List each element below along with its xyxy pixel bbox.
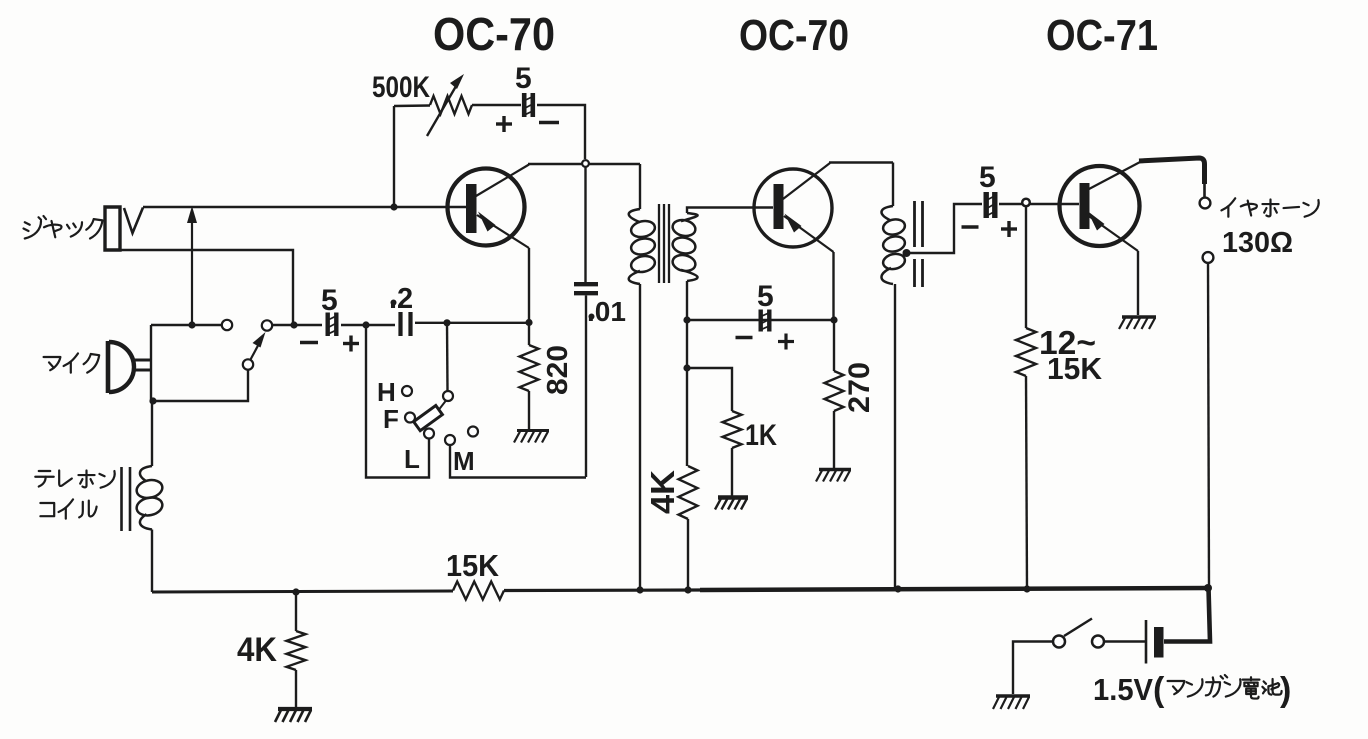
transformer T2 primary winding [881, 206, 906, 284]
polarity minus (feedback cap) [539, 121, 559, 124]
contact spare [468, 427, 478, 437]
label L [404, 444, 420, 474]
wire cap to collector corner [537, 105, 585, 159]
input select arrow [187, 206, 197, 325]
power switch contact left [1053, 636, 1065, 648]
label 1K [745, 419, 777, 452]
battery 1.5V [1146, 620, 1164, 664]
label 12~ [1039, 324, 1096, 361]
svg-text:15K: 15K [1047, 351, 1103, 386]
contact M [445, 435, 455, 445]
label coil (katakana) [40, 499, 96, 518]
node arrow junction [188, 321, 195, 328]
label 820 (rotated) [542, 345, 574, 395]
earphone terminal 2 [1203, 252, 1214, 263]
svg-text:5: 5 [321, 284, 338, 317]
transistor label OC-70 (first stage) [433, 8, 555, 60]
wire mic-line to switch contact [151, 324, 222, 326]
wire 270 to ground [833, 411, 835, 468]
wire mic vertical [150, 325, 152, 402]
resistor 1K [723, 411, 742, 448]
svg-text:OC-70: OC-70 [433, 8, 555, 60]
transformer T1 primary down [639, 284, 641, 590]
wire bottom rail middle [504, 588, 700, 592]
wire rail corner to battery [1164, 588, 1210, 642]
wire .2 to 820 node [415, 322, 529, 324]
polarity plus (feedback cap) [496, 116, 512, 132]
svg-text:1.5V: 1.5V [1093, 672, 1153, 707]
transistor Q1 collector [476, 164, 582, 196]
wire contact b to node [273, 324, 323, 326]
node bottom rail at 4K [292, 588, 299, 595]
label 15K (bias) [1047, 351, 1103, 386]
transistor Q1 emitter [477, 212, 529, 249]
wire 4K mid to rail [687, 519, 689, 590]
wire jack to T1 base [143, 206, 466, 208]
tone switch wiper blade [414, 406, 443, 431]
transistor Q1 OC-70 circle [448, 169, 525, 246]
node secondary bottom [683, 316, 690, 323]
label 4K [237, 631, 277, 669]
wire wiper down to mic bottom [153, 370, 248, 401]
mic select wiper arrow [251, 332, 266, 360]
label 1.5V battery [1093, 671, 1291, 709]
transformer T2 tap wire [907, 204, 983, 253]
node bottom rail at 12-15K [1023, 585, 1030, 592]
svg-text:(: ( [1153, 671, 1165, 709]
svg-text:4K: 4K [237, 631, 277, 669]
transformer T1 secondary down [686, 281, 688, 320]
transistor label OC-70 (second stage) [739, 11, 849, 60]
wire cap5 to cap.2 [341, 324, 395, 326]
switch wiper contact [243, 359, 253, 369]
capacitor 5 electrolytic (feedback) [523, 93, 535, 117]
polarity minus (stage3) [962, 225, 979, 228]
wire 4K to ground [295, 670, 297, 708]
polarity plus (stage2) [778, 334, 794, 350]
transformer T2 core upper [915, 201, 923, 247]
wire node down to .01 [584, 167, 586, 282]
capacitor 5 electrolytic (mic coupling) [326, 313, 338, 337]
node 1K branch [683, 364, 690, 371]
ground below Q3 emitter [1119, 317, 1156, 329]
node after mic cap [362, 321, 369, 328]
wire terminal2 down [1208, 263, 1209, 588]
svg-text:.01: .01 [587, 296, 626, 327]
svg-text:500K: 500K [372, 71, 430, 104]
power switch arm [1064, 619, 1092, 637]
switch contact a [222, 320, 232, 330]
label 500K [372, 71, 430, 104]
tone wiper link [439, 401, 446, 410]
wire emitter2 down [832, 252, 834, 320]
contact L [424, 429, 434, 439]
wire Q3 collector thick [1139, 158, 1205, 198]
node 500K-to-base junction [390, 203, 397, 210]
label mic (katakana) [44, 353, 100, 372]
node emitter/820 [525, 319, 532, 326]
contact F [405, 413, 415, 423]
earphone terminal 1 [1200, 198, 1211, 209]
label .2 [389, 283, 413, 315]
wire 1K to ground [731, 448, 733, 496]
svg-text:15K: 15K [446, 548, 500, 583]
transistor Q1 base bar [466, 184, 477, 233]
svg-text:5: 5 [515, 62, 532, 95]
wire node to transformer1 [589, 163, 640, 165]
capacitor .2 [401, 312, 411, 336]
capacitor .01 [574, 284, 598, 293]
transformer T2 tap dot [903, 249, 911, 257]
transformer T2 primary top [892, 163, 894, 207]
transformer T1 primary wire [639, 164, 641, 209]
power switch contact right [1092, 636, 1104, 648]
label 15K [446, 548, 500, 583]
svg-text:820: 820 [542, 345, 574, 395]
label H [377, 377, 396, 407]
svg-text:L: L [404, 444, 420, 474]
svg-text:5: 5 [757, 280, 774, 313]
wire .01 down to tone box [585, 296, 587, 478]
wire switch to ground [1013, 642, 1053, 695]
polarity minus (mic cap) [300, 341, 318, 344]
svg-text:1K: 1K [745, 419, 777, 452]
svg-text:.2: .2 [389, 283, 413, 315]
polarity plus (stage3) [1001, 221, 1017, 237]
svg-text:130Ω: 130Ω [1222, 227, 1293, 259]
wire pot to cap5 top [472, 104, 521, 106]
svg-text:): ) [1280, 671, 1291, 709]
label 130 ohm [1222, 227, 1293, 259]
tone box left [366, 325, 429, 478]
label M [453, 446, 475, 476]
node 12-15K junction (small circle) [1022, 199, 1030, 207]
wire junction down [1025, 207, 1027, 329]
jack symbol [105, 207, 143, 250]
transistor Q2 collector [783, 163, 893, 200]
transistor Q2 base bar [774, 184, 784, 229]
label F [383, 404, 399, 434]
wire 270 top [833, 320, 835, 371]
svg-text:F: F [383, 404, 399, 434]
polarity minus (stage2) [736, 336, 753, 339]
tone switch pole contact [443, 391, 453, 401]
svg-text:OC-71: OC-71 [1046, 11, 1158, 60]
mic stub wires [132, 360, 152, 370]
node mic bottom [149, 397, 156, 404]
svg-text:H: H [377, 377, 396, 407]
ground below 1K [715, 498, 748, 510]
wire bottom rail left [152, 591, 453, 592]
microphone symbol [108, 341, 134, 393]
transistor Q3 base bar [1080, 183, 1090, 229]
wire node to 820 [528, 323, 530, 346]
telephone coil core bars [122, 467, 131, 531]
contact H [402, 386, 412, 396]
wire cap to Q3 base [999, 203, 1079, 205]
node collector junction (small circle) [582, 160, 589, 167]
wire 12-15K to rail [1026, 376, 1027, 589]
transformer T2 primary down [894, 284, 896, 589]
label 5 (mic coupling cap) [321, 284, 338, 317]
transformer T1 core [659, 204, 669, 283]
switch contact b [262, 320, 272, 330]
ground below 4K [275, 709, 312, 722]
wire top to pot [394, 104, 430, 107]
svg-text:270: 270 [843, 362, 876, 413]
tone box right [450, 445, 586, 478]
label telephone (katakana) [35, 470, 114, 487]
wire Q3 emitter down [1137, 251, 1139, 315]
wire 1K branch [687, 368, 732, 411]
transformer T1 secondary top wire [687, 208, 773, 214]
node bottom rail at transformer1 [636, 586, 643, 593]
capacitor 5 electrolytic (stage2) [759, 310, 771, 332]
label 5 (feedback cap) [515, 62, 532, 95]
label 270 rotated [843, 362, 876, 413]
transistor Q3 OC-71 circle [1060, 166, 1140, 246]
wire tone branch down [446, 323, 449, 391]
resistor 12-15K [1016, 328, 1036, 376]
node bottom rail at 4K mid [684, 586, 691, 593]
wire Q1 emitter down [528, 248, 530, 323]
transformer T1 primary winding [629, 209, 657, 284]
svg-text:5: 5 [979, 161, 996, 194]
resistor 820 [520, 345, 539, 391]
label 5 (stage3 cap) [979, 161, 996, 194]
transformer T2 core lower [915, 259, 923, 287]
svg-text:4K: 4K [644, 470, 681, 514]
wire node to 4K [295, 592, 297, 631]
resistor 4K (emitter bias) [287, 631, 306, 670]
resistor 270 [825, 371, 844, 411]
wire bottom rail right (thick) [700, 588, 1209, 590]
node tone branch [443, 319, 450, 326]
potentiometer arrow [427, 74, 464, 136]
transistor label OC-71 (third stage) [1046, 11, 1158, 60]
node bottom rail at transformer2 [894, 585, 901, 592]
transistor Q3 emitter [1086, 211, 1138, 251]
polarity plus (mic cap) [343, 336, 359, 352]
resistor 15K (series, bottom rail) [453, 582, 504, 600]
label earphone (katakana) [1221, 198, 1318, 216]
wire jack sleeve down [105, 250, 293, 325]
transformer T1 secondary winding [671, 213, 697, 281]
svg-text:OC-70: OC-70 [739, 11, 849, 60]
wire secondary node down [686, 320, 688, 466]
potentiometer 500K zigzag [430, 96, 472, 114]
capacitor 5 electrolytic (stage3) [985, 192, 997, 218]
svg-text:M: M [453, 446, 475, 476]
wire cap5b line [687, 319, 834, 321]
wire battery to switch [1105, 640, 1147, 643]
ground below power switch [993, 696, 1030, 709]
node bottom rail right corner [1204, 584, 1212, 592]
label 4K rotated [644, 470, 681, 514]
ground below 270 [816, 470, 851, 482]
resistor 4K (stage2 bias) [679, 466, 698, 519]
transistor Q2 OC-70 circle [754, 169, 832, 247]
node stage2 emitter [830, 316, 837, 323]
ground below 820 [514, 431, 549, 443]
transistor Q2 emitter [784, 214, 834, 253]
transistor Q3 collector [1089, 162, 1141, 190]
telephone coil winding [135, 402, 164, 592]
wire 500K left leg [393, 106, 395, 207]
wire 820 to ground [528, 391, 530, 429]
label 5 (stage2 cap) [757, 280, 774, 313]
label .01 [587, 296, 626, 327]
node jack/mic select [290, 321, 297, 328]
label jack (katakana) [24, 216, 103, 239]
